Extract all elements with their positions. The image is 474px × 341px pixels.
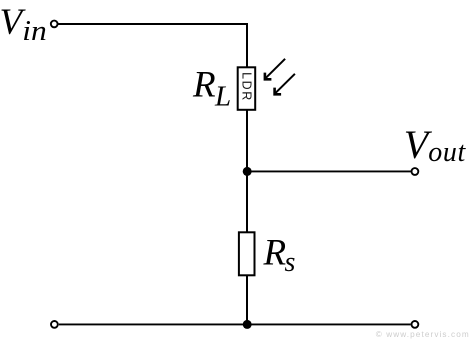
terminal bottom left bbox=[51, 321, 58, 328]
svg-text:L: L bbox=[214, 81, 231, 113]
svg-text:© www.petervis.com: © www.petervis.com bbox=[376, 330, 470, 339]
node mid junction bbox=[243, 167, 252, 176]
wire top horizontal bbox=[58, 23, 248, 25]
resistor Rs bbox=[239, 232, 255, 275]
label Vout bbox=[404, 122, 467, 168]
light arrow 2 bbox=[275, 74, 295, 95]
terminal bottom right bbox=[412, 321, 419, 328]
label RL bbox=[192, 65, 231, 113]
svg-text:R: R bbox=[263, 232, 287, 273]
wire Rs to bottom rail bbox=[246, 275, 248, 324]
wire RL to mid node bbox=[246, 110, 248, 172]
svg-text:R: R bbox=[192, 65, 216, 106]
terminal Vin bbox=[51, 21, 58, 28]
svg-text:LDR: LDR bbox=[240, 72, 254, 102]
terminal Vout bbox=[412, 168, 419, 175]
label Rs bbox=[263, 232, 296, 278]
wire top vertical bbox=[246, 23, 248, 68]
node bottom junction bbox=[243, 320, 252, 329]
svg-text:s: s bbox=[285, 247, 296, 278]
svg-text:out: out bbox=[428, 137, 466, 168]
light arrow 1 bbox=[265, 59, 285, 80]
wire mid node to Rs bbox=[246, 171, 248, 233]
svg-text:in: in bbox=[22, 15, 46, 47]
wire mid to Vout bbox=[247, 170, 411, 172]
wire bottom rail bbox=[59, 323, 411, 325]
resistor RL (LDR) bbox=[238, 67, 256, 110]
label Vin bbox=[0, 2, 47, 47]
